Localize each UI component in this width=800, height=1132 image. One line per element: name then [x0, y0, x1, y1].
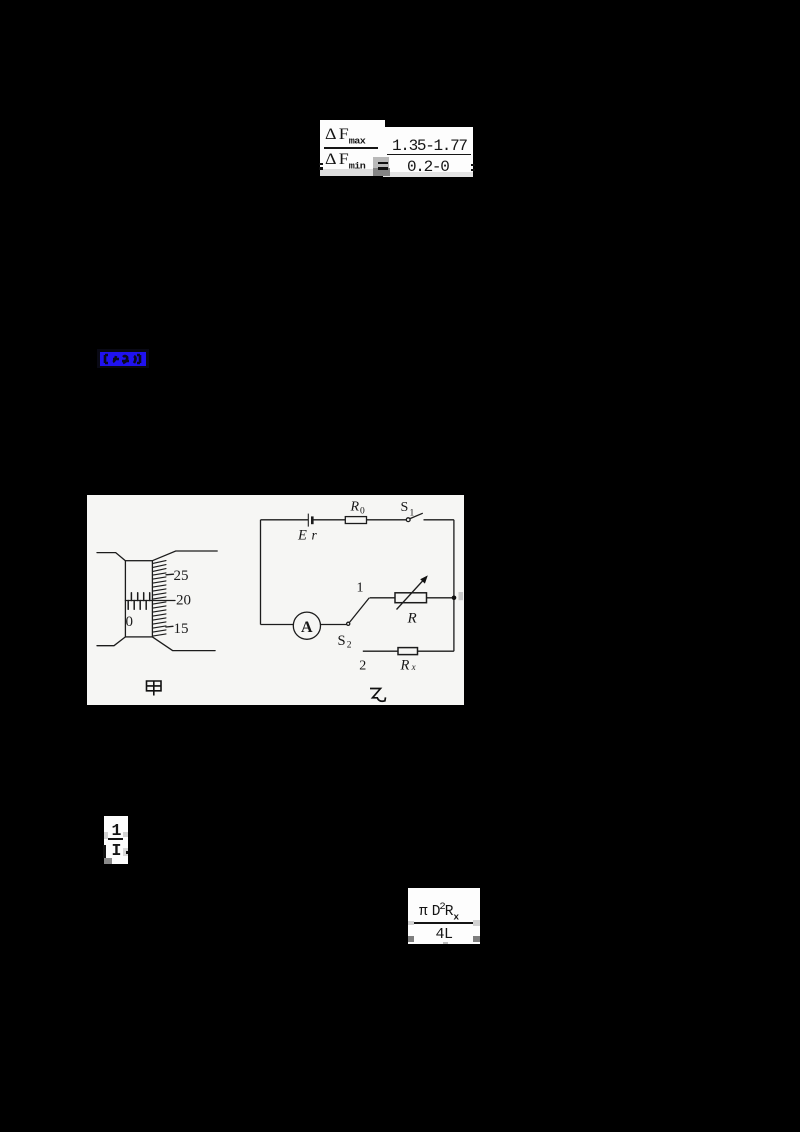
rheostat arrow [397, 581, 424, 610]
switch S2 pivot [347, 622, 350, 625]
left wire down [260, 520, 262, 625]
rheostat arrow head [420, 575, 428, 583]
wire ammeter to S2 [321, 624, 347, 626]
wire S1 to right corner [424, 519, 454, 521]
svg-text:2: 2 [359, 658, 366, 673]
svg-text:R: R [400, 658, 410, 674]
svg-text:A: A [301, 619, 313, 636]
micrometer left jaw bottom [97, 637, 125, 646]
micrometer datum line [125, 600, 175, 602]
thick equals sign [378, 162, 388, 165]
caption jia (CJK) [147, 681, 162, 696]
svg-text:S: S [401, 500, 409, 515]
wire battery to R0 [314, 519, 346, 521]
svg-text:20: 20 [176, 593, 191, 609]
battery E r [307, 514, 309, 527]
svg-text:R: R [350, 500, 360, 515]
partial glyph left of fraction [319, 163, 323, 165]
svg-text:15: 15 [174, 621, 189, 637]
pointer to 25 [166, 573, 174, 576]
denominator 0.2-0 [407, 158, 467, 172]
switch S1 pivot [406, 518, 410, 522]
svg-text:x: x [411, 662, 416, 672]
caption yi (CJK) [370, 689, 386, 702]
blue highlighted answer label [97, 349, 149, 368]
junction node dot [452, 596, 457, 601]
fraction bar left [324, 147, 378, 149]
resistor R0 [345, 517, 366, 524]
wire R0 to S1 [367, 519, 407, 521]
svg-text:25: 25 [174, 568, 189, 584]
switch S2 lever [349, 598, 369, 623]
partial glyph right of fraction [471, 164, 475, 166]
right wire down [453, 520, 455, 651]
svg-text:R: R [407, 611, 417, 627]
partial glyph left of 1/I [103, 845, 106, 858]
gray artifact right of junction [459, 592, 464, 600]
numerator 1.35-1.77 [392, 137, 472, 151]
wire contact 1 to R [370, 597, 396, 599]
svg-text:r: r [312, 528, 318, 543]
ammeter A circle [293, 612, 320, 639]
wire battery left [261, 519, 309, 521]
svg-text:0: 0 [360, 507, 365, 517]
formula pi D^2 Rx over 4L [408, 888, 480, 944]
white figure panel [87, 495, 464, 705]
micrometer thimble ticks [153, 561, 166, 637]
fraction bar right [387, 154, 471, 156]
rheostat R body [395, 593, 427, 603]
micrometer main scale upper ticks [131, 593, 149, 601]
wire R to right wire [427, 597, 454, 599]
numerator delta F max [325, 126, 388, 141]
svg-text:0: 0 [126, 614, 134, 630]
micrometer right frame top [152, 551, 217, 561]
wire to ammeter [261, 624, 294, 626]
svg-text:1: 1 [357, 580, 364, 595]
switch S1 lever [410, 513, 423, 518]
micrometer left jaw top [97, 553, 125, 561]
micrometer sleeve rectangle [125, 561, 152, 637]
top formula: delta F max / delta F min = (1.35-1.77)/(0.2-0) [320, 120, 385, 173]
svg-text:1: 1 [410, 509, 415, 519]
resistor Rx [398, 648, 418, 655]
svg-text:E: E [297, 528, 307, 544]
bottom branch wire [363, 650, 454, 652]
micrometer right frame bottom [152, 637, 215, 651]
micrometer main scale lower ticks [128, 601, 146, 610]
svg-text:S: S [338, 633, 346, 649]
circuit: top wire left segment [261, 513, 454, 654]
pointer to 15 [166, 625, 173, 628]
gray patch behind equals [373, 157, 389, 168]
svg-text:2: 2 [347, 641, 352, 651]
fraction 1 over I [104, 816, 128, 864]
denominator delta F min [325, 151, 388, 166]
